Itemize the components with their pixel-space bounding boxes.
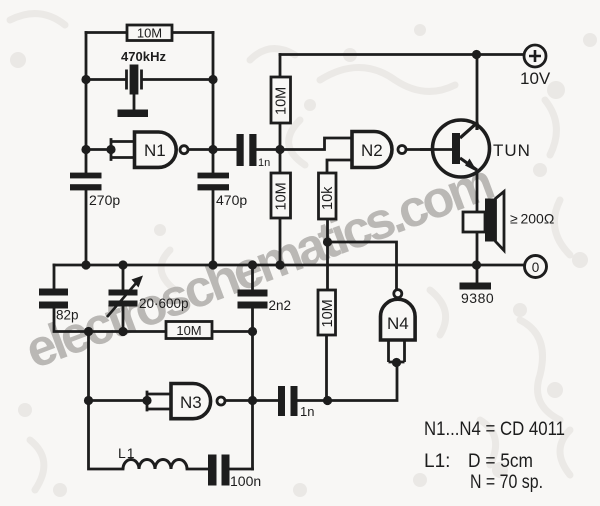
wire emitter to speaker bbox=[476, 168, 479, 213]
junction 10M bottom bbox=[323, 396, 332, 405]
wire node B to N2 input bbox=[280, 138, 352, 150]
svg-text:9380: 9380 bbox=[461, 290, 494, 306]
resistor 10M middle bbox=[166, 322, 212, 339]
crystal 470kHz bbox=[121, 49, 167, 95]
junction N3 output bbox=[248, 396, 257, 405]
wire 10M mid-bottom lead bbox=[325, 335, 328, 401]
junction bus emitter bbox=[472, 260, 481, 269]
svg-text:1n: 1n bbox=[258, 157, 270, 169]
wire N1 output bbox=[189, 148, 237, 151]
op-amp N1 nand gate bbox=[135, 132, 189, 167]
wire crystal leads bbox=[86, 78, 213, 81]
wire 1n to node B bbox=[257, 148, 281, 151]
wire N1 inputs bbox=[86, 140, 135, 160]
inductor L1 bbox=[118, 445, 187, 469]
op-amp N4 nand gate bbox=[381, 290, 416, 362]
wire crystal stem bbox=[133, 94, 136, 110]
junction bus 2n2 bbox=[248, 260, 257, 269]
resistor 10M upper right bbox=[271, 77, 291, 123]
svg-text:N1...N4 = CD 4011: N1...N4 = CD 4011 bbox=[424, 419, 565, 440]
capacitor 1n lower bbox=[278, 386, 314, 419]
variable capacitor 20-600p bbox=[107, 276, 189, 318]
op-amp N2 nand gate bbox=[352, 132, 406, 168]
wire varcap leads bbox=[122, 265, 125, 332]
wire N2 lower input to 10k bbox=[327, 160, 352, 173]
capacitor 2n2 bbox=[238, 290, 292, 314]
op-amp N3 nand gate bbox=[171, 384, 225, 419]
junction N1 input tie bbox=[106, 145, 115, 154]
junction N1 output bbox=[208, 145, 217, 154]
wire left vertical upper bbox=[85, 33, 88, 266]
wire to N4 inputs bbox=[328, 364, 398, 401]
svg-text:D = 5cm: D = 5cm bbox=[468, 451, 533, 472]
wire 0V bus bbox=[54, 264, 524, 267]
wire top loop bbox=[86, 31, 213, 34]
wire 82p bottom to mid line bbox=[54, 308, 166, 332]
junction N4 input tie bbox=[392, 358, 401, 367]
ground under crystal bbox=[118, 110, 149, 118]
capacitor 270p bbox=[70, 173, 120, 208]
terminal +10V bbox=[520, 45, 551, 88]
wire 2n2 leads bbox=[251, 265, 254, 332]
wire mid line right of 10M bbox=[212, 330, 253, 333]
wire N3 output bbox=[227, 399, 253, 402]
svg-text:10M: 10M bbox=[137, 26, 162, 41]
svg-text:≥ 200Ω: ≥ 200Ω bbox=[510, 211, 554, 227]
svg-text:470kHz: 470kHz bbox=[121, 49, 167, 64]
svg-text:N3: N3 bbox=[180, 393, 202, 412]
resistor R 10M top bbox=[127, 25, 172, 41]
svg-text:L1:: L1: bbox=[424, 451, 450, 472]
svg-text:N2: N2 bbox=[361, 141, 383, 160]
svg-text:10M: 10M bbox=[274, 182, 290, 210]
wire N2 output to base bbox=[407, 148, 453, 151]
svg-text:N4: N4 bbox=[387, 314, 409, 333]
wire x252 lower bbox=[251, 401, 254, 470]
junction 10k N4 output bbox=[323, 237, 332, 246]
wire branch x88 bbox=[87, 332, 90, 401]
wire collector bbox=[476, 55, 479, 131]
wire N3 inputs bbox=[89, 392, 172, 410]
svg-text:2n2: 2n2 bbox=[269, 298, 292, 313]
terminal 0 bbox=[525, 256, 547, 278]
svg-text:10M: 10M bbox=[320, 299, 336, 327]
svg-text:1n: 1n bbox=[300, 404, 314, 419]
svg-text:10M: 10M bbox=[176, 323, 201, 338]
svg-text:470p: 470p bbox=[216, 192, 247, 208]
junction bus varcap bbox=[118, 260, 127, 269]
junction crystal left bbox=[81, 75, 90, 84]
ground 9380 bbox=[460, 283, 495, 307]
wire 10k to N4 output bbox=[328, 219, 397, 290]
wire +10V rail bbox=[280, 53, 524, 56]
junction midline varcap bbox=[118, 327, 127, 336]
svg-text:N1: N1 bbox=[144, 141, 166, 160]
junction midline branch bbox=[84, 327, 93, 336]
wire 10M upper leads bbox=[279, 55, 282, 150]
svg-text:82p: 82p bbox=[56, 308, 79, 323]
capacitor 100n bbox=[208, 455, 261, 490]
svg-text:10V: 10V bbox=[520, 69, 551, 88]
svg-text:L1: L1 bbox=[118, 445, 136, 461]
junction bus 10M bbox=[275, 260, 284, 269]
junction midline 2n2 bbox=[248, 327, 257, 336]
wire speaker to ground bbox=[476, 232, 479, 283]
transistor Q1 TUN bbox=[420, 120, 531, 177]
svg-text:10k: 10k bbox=[320, 186, 336, 210]
svg-text:TUN: TUN bbox=[493, 141, 531, 160]
junction rail collector bbox=[472, 50, 481, 59]
speaker bbox=[463, 192, 554, 251]
svg-text:100n: 100n bbox=[230, 473, 261, 489]
junction bus 270p bbox=[81, 260, 90, 269]
wire bus left drop to 82p bbox=[53, 265, 56, 289]
wire x252 middle bbox=[251, 332, 254, 401]
capacitor 1n top bbox=[237, 134, 271, 169]
junction bus 470p bbox=[208, 260, 217, 269]
resistor 10k bbox=[319, 173, 337, 219]
wire bottom loop bbox=[89, 401, 253, 470]
junction node B bbox=[275, 145, 284, 154]
junction N3 input tie bbox=[142, 396, 151, 405]
junction crystal right bbox=[208, 75, 217, 84]
resistor 10M lower middle bbox=[318, 290, 336, 335]
resistor 10M lower right bbox=[271, 173, 291, 218]
junction N3 input left bbox=[84, 396, 93, 405]
wire 1n lower leads bbox=[253, 399, 328, 402]
junction N1 input left bbox=[81, 145, 90, 154]
capacitor 470p bbox=[198, 173, 248, 208]
svg-text:10M: 10M bbox=[274, 87, 290, 115]
wire 10M lower leads bbox=[279, 150, 282, 266]
svg-text:N = 70 sp.: N = 70 sp. bbox=[470, 472, 543, 493]
capacitor 82p bbox=[39, 289, 79, 323]
wire right vertical bbox=[212, 33, 215, 266]
svg-text:20·600p: 20·600p bbox=[139, 296, 189, 311]
svg-text:270p: 270p bbox=[89, 192, 120, 208]
svg-text:0: 0 bbox=[532, 260, 540, 275]
